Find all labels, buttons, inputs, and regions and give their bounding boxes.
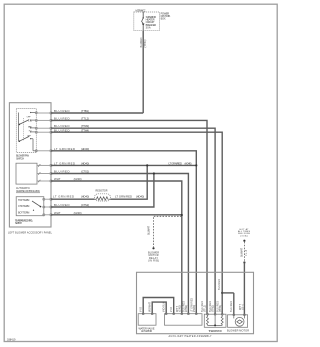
svg-text:BLU/RED: BLU/RED	[54, 129, 70, 133]
svg-text:(HD40): (HD40)	[136, 195, 144, 199]
svg-text:(TTB1): (TTB1)	[81, 109, 89, 113]
svg-text:BOT TERM: BOT TERM	[18, 212, 29, 215]
svg-text:(TTL2): (TTL2)	[81, 116, 89, 120]
svg-text:LT GRN/RED: LT GRN/RED	[53, 195, 74, 199]
svg-text:(GND): (GND)	[74, 211, 82, 215]
svg-text:LT GRN/RED: LT GRN/RED	[169, 161, 183, 165]
svg-text:LEFT BLOWER ACCESSORY PANEL: LEFT BLOWER ACCESSORY PANEL	[8, 232, 53, 235]
svg-text:BLU/RED: BLU/RED	[230, 301, 233, 312]
svg-text:BLU/RED: BLU/RED	[54, 203, 70, 207]
svg-text:(HD40): (HD40)	[185, 161, 192, 165]
svg-text:BLK/WHT: BLK/WHT	[240, 248, 243, 257]
svg-text:(B+): (B+)	[241, 304, 244, 310]
svg-text:30A: 30A	[146, 25, 151, 29]
svg-text:(CTS2): (CTS2)	[81, 170, 89, 174]
svg-text:(HD40): (HD40)	[81, 147, 89, 151]
svg-text:OFF: OFF	[27, 116, 32, 118]
svg-text:LO: LO	[29, 121, 32, 123]
svg-text:(TTL2): (TTL2)	[204, 305, 207, 312]
svg-text:TOP TERM: TOP TERM	[18, 199, 29, 202]
svg-text:ACTUATOR: ACTUATOR	[141, 330, 152, 333]
svg-text:WHT: WHT	[54, 177, 61, 181]
svg-text:(TTH4): (TTH4)	[219, 305, 222, 312]
svg-text:(CTS2): (CTS2)	[185, 305, 188, 312]
svg-text:VIO/WHT: VIO/WHT	[149, 301, 152, 312]
svg-text:WHT: WHT	[54, 211, 61, 215]
svg-text:BLU/RED: BLU/RED	[54, 116, 70, 120]
svg-text:OFF: OFF	[27, 135, 32, 137]
svg-text:BLOWER MOTOR: BLOWER MOTOR	[227, 330, 249, 333]
svg-text:BLU/RED: BLU/RED	[54, 109, 70, 113]
svg-text:(HD40): (HD40)	[81, 161, 89, 165]
svg-text:(TTM2): (TTM2)	[212, 305, 215, 312]
svg-text:RESISTOR: RESISTOR	[96, 189, 108, 192]
svg-text:(CTS2): (CTS2)	[81, 203, 89, 207]
svg-text:(HD40): (HD40)	[193, 305, 196, 312]
svg-text:CTR TERM: CTR TERM	[18, 205, 29, 208]
svg-text:BLU/RED: BLU/RED	[140, 37, 143, 47]
svg-text:(GND): (GND)	[74, 177, 82, 181]
svg-text:THERMISTOR: THERMISTOR	[208, 330, 222, 333]
svg-text:(IN R/B): (IN R/B)	[148, 260, 159, 263]
svg-text:LT GRN/RED: LT GRN/RED	[54, 161, 75, 165]
svg-text:(TTH4): (TTH4)	[81, 129, 89, 133]
svg-text:SWITCH: SWITCH	[15, 222, 22, 225]
svg-text:BOX: BOX	[161, 16, 166, 20]
svg-text:(30A): (30A)	[240, 234, 248, 237]
svg-text:LT GRN/RED: LT GRN/RED	[115, 195, 132, 199]
svg-text:BLU/RED: BLU/RED	[54, 170, 70, 174]
svg-text:(GND): (GND)	[178, 305, 181, 312]
svg-text:BLK/RED: BLK/RED	[218, 279, 221, 290]
svg-text:(HD40): (HD40)	[81, 195, 89, 199]
svg-text:VIO: VIO	[140, 307, 143, 312]
svg-text:038419: 038419	[7, 339, 16, 342]
svg-text:(TTB1): (TTB1)	[144, 39, 147, 47]
svg-text:LT GRN/RED: LT GRN/RED	[54, 147, 75, 151]
svg-text:AUXILIARY HEATER ASSEMBLY: AUXILIARY HEATER ASSEMBLY	[169, 335, 212, 338]
svg-text:FL-3: FL-3	[245, 249, 248, 256]
svg-text:VIO/BLK: VIO/BLK	[163, 302, 166, 312]
svg-text:BLU/WHT: BLU/WHT	[147, 226, 150, 235]
svg-text:SWITCH: SWITCH	[16, 157, 24, 160]
svg-text:VIO: VIO	[170, 307, 173, 312]
